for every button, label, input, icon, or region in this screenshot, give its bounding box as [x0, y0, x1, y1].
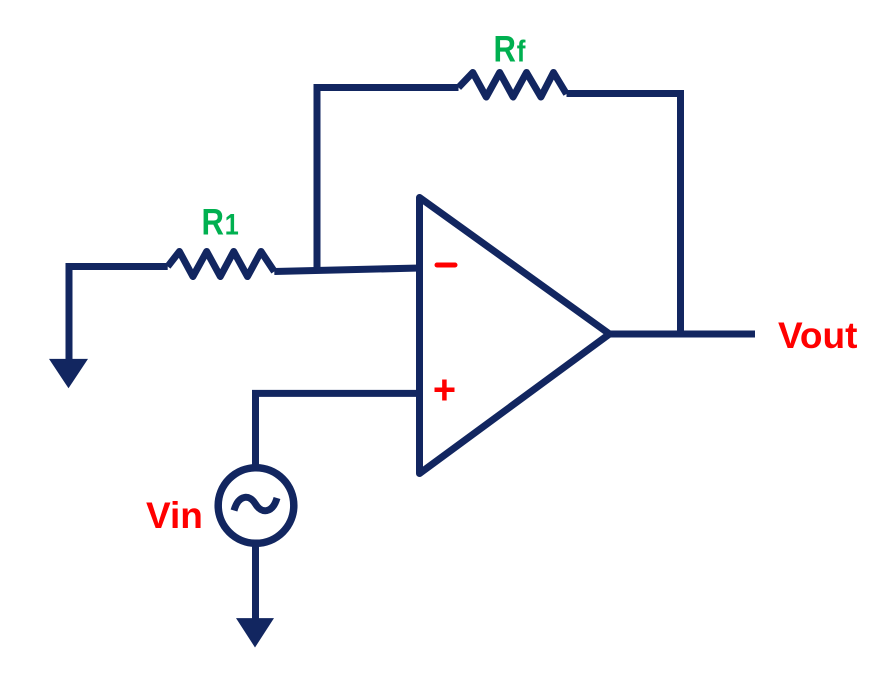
svg-text:Rf: Rf [494, 29, 526, 70]
svg-text:Vin: Vin [146, 495, 203, 536]
svg-text:R1: R1 [202, 202, 239, 243]
svg-text:Vout: Vout [778, 315, 857, 356]
